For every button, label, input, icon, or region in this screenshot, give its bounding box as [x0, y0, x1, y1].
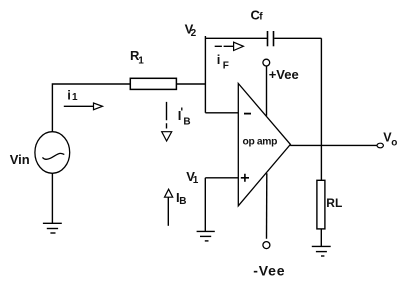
svg-text:f: f — [259, 12, 263, 23]
svg-text:RL: RL — [326, 196, 342, 210]
svg-text:1: 1 — [138, 56, 144, 67]
svg-text:i: i — [67, 88, 71, 103]
svg-text:-Vee: -Vee — [253, 263, 285, 279]
svg-text:op amp: op amp — [243, 137, 278, 148]
svg-text:1: 1 — [72, 92, 78, 103]
svg-text:1: 1 — [193, 175, 199, 186]
svg-text:I: I — [178, 108, 182, 123]
svg-text:F: F — [223, 61, 229, 72]
svg-text:Vin: Vin — [10, 152, 30, 167]
svg-text:i: i — [217, 52, 221, 67]
svg-text:o: o — [391, 138, 397, 149]
svg-text:B: B — [179, 196, 186, 207]
svg-text:2: 2 — [191, 28, 197, 39]
svg-text:B: B — [183, 117, 190, 128]
svg-text:+Vee: +Vee — [269, 67, 299, 82]
